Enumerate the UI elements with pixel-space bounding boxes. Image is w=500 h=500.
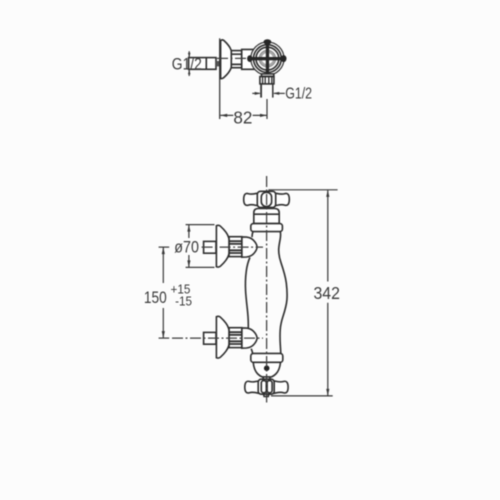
upper escutcheon bell <box>216 225 229 267</box>
82 dim extension line right <box>266 99 268 119</box>
bottom handle left lobe <box>245 381 259 393</box>
342 top extension line <box>268 189 337 191</box>
centerline (top view horizontal) <box>217 57 259 59</box>
top handle stem <box>261 208 273 211</box>
body outline right edge <box>279 232 287 354</box>
82 dimension line <box>220 114 267 116</box>
outlet ribbed nut <box>260 77 274 84</box>
cross spoke top <box>266 41 269 59</box>
dia70 extension lines <box>186 225 215 268</box>
escutcheon flange (top view, side profile) <box>221 40 232 79</box>
top handle hub inner capsule <box>261 192 271 206</box>
upper inlet ribbed nut <box>229 237 242 257</box>
valve housing <box>242 49 256 69</box>
G1/2 right arrow left <box>252 92 259 94</box>
dia70 dimension line <box>188 225 190 267</box>
handle middle circle <box>254 45 282 73</box>
150 dimension line <box>162 247 164 338</box>
inlet pipe nipple (top view) <box>189 58 216 70</box>
main vertical centerline <box>266 176 268 403</box>
svg-text:-15: -15 <box>175 294 192 309</box>
upper inlet boss cone <box>242 237 257 257</box>
cross spoke bottom <box>266 59 269 75</box>
outlet pipe lines <box>260 84 262 98</box>
svg-text:82: 82 <box>233 107 252 128</box>
pipe nipple step line <box>205 58 207 70</box>
bottom handle tip <box>264 394 269 396</box>
342 bottom extension line <box>271 395 333 397</box>
lower escutcheon bell <box>216 316 229 358</box>
body outline left edge bottom <box>251 349 252 354</box>
cross spoke right <box>267 57 283 60</box>
bottom handle hub inner capsule <box>261 381 266 393</box>
handle outer circle <box>251 42 284 75</box>
wall / mounting plane line <box>219 38 221 119</box>
outlet dot <box>264 365 270 371</box>
lower inlet boss cone <box>242 328 257 348</box>
hex nut (top view) <box>231 51 241 68</box>
150 dim tick bottom <box>159 337 170 339</box>
svg-text:ø70: ø70 <box>174 238 199 256</box>
svg-text:G1/2: G1/2 <box>172 55 202 74</box>
bonnet dome <box>254 209 279 224</box>
G1/2 tick arrow top <box>188 51 190 57</box>
svg-text:150: 150 <box>144 289 167 307</box>
G1/2 right arrow right <box>274 92 285 94</box>
top handle hub <box>257 191 275 207</box>
342 dimension line <box>327 190 329 396</box>
body outline left edge <box>245 258 249 329</box>
lower inlet centerline <box>172 337 263 339</box>
lower inlet pipe stub <box>204 332 216 344</box>
bottom outlet bowl <box>253 362 280 377</box>
svg-text:342: 342 <box>314 283 340 303</box>
pipe-wall collar <box>216 61 220 66</box>
bottom handle neck <box>263 377 270 380</box>
150 dim tick top <box>159 246 170 248</box>
handle hub shading <box>261 52 275 66</box>
svg-text:G1/2: G1/2 <box>285 84 312 102</box>
upper inlet centerline <box>202 246 263 248</box>
cross spoke left <box>250 57 268 60</box>
bottom ring band <box>251 353 283 362</box>
body outline left edge top <box>251 232 254 238</box>
outlet collar under handle <box>262 74 274 77</box>
bottom handle right lobe <box>274 381 288 393</box>
bottom handle hub <box>258 379 274 394</box>
lower inlet ribbed nut <box>229 328 242 348</box>
top handle left lobe <box>244 193 258 206</box>
handle inner circle <box>256 47 279 70</box>
G1/2 tick arrow bottom <box>188 70 190 76</box>
upper inlet pipe stub <box>204 241 216 253</box>
top handle right lobe <box>275 193 289 206</box>
top cover ring band <box>251 224 283 232</box>
